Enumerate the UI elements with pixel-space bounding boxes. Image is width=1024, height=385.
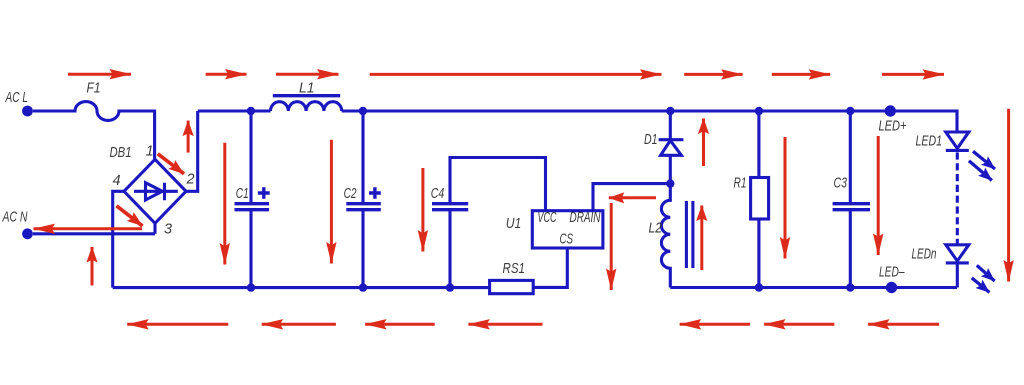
- svg-text:CS: CS: [560, 231, 574, 247]
- svg-text:C2: C2: [344, 186, 357, 202]
- svg-text:C1: C1: [236, 186, 249, 202]
- svg-text:R1: R1: [734, 176, 747, 192]
- svg-text:D1: D1: [644, 132, 658, 148]
- svg-text:AC L: AC L: [5, 90, 28, 106]
- svg-text:DB1: DB1: [110, 145, 132, 161]
- svg-text:L1: L1: [299, 80, 315, 96]
- svg-text:4: 4: [113, 173, 121, 189]
- svg-text:L2: L2: [649, 221, 663, 237]
- svg-text:U1: U1: [506, 216, 522, 232]
- svg-text:LED+: LED+: [879, 118, 907, 134]
- svg-text:C4: C4: [431, 186, 445, 202]
- svg-text:RS1: RS1: [503, 261, 526, 277]
- svg-text:2: 2: [186, 172, 195, 188]
- svg-text:1: 1: [146, 144, 154, 160]
- svg-text:AC N: AC N: [2, 210, 28, 226]
- svg-text:F1: F1: [87, 80, 101, 96]
- svg-text:LEDn: LEDn: [912, 246, 937, 262]
- svg-text:LED–: LED–: [879, 264, 905, 280]
- svg-text:VCC: VCC: [538, 210, 557, 226]
- svg-text:LED1: LED1: [916, 133, 943, 149]
- svg-text:DRAIN: DRAIN: [570, 210, 601, 226]
- svg-text:3: 3: [164, 222, 172, 238]
- svg-text:C3: C3: [834, 176, 848, 192]
